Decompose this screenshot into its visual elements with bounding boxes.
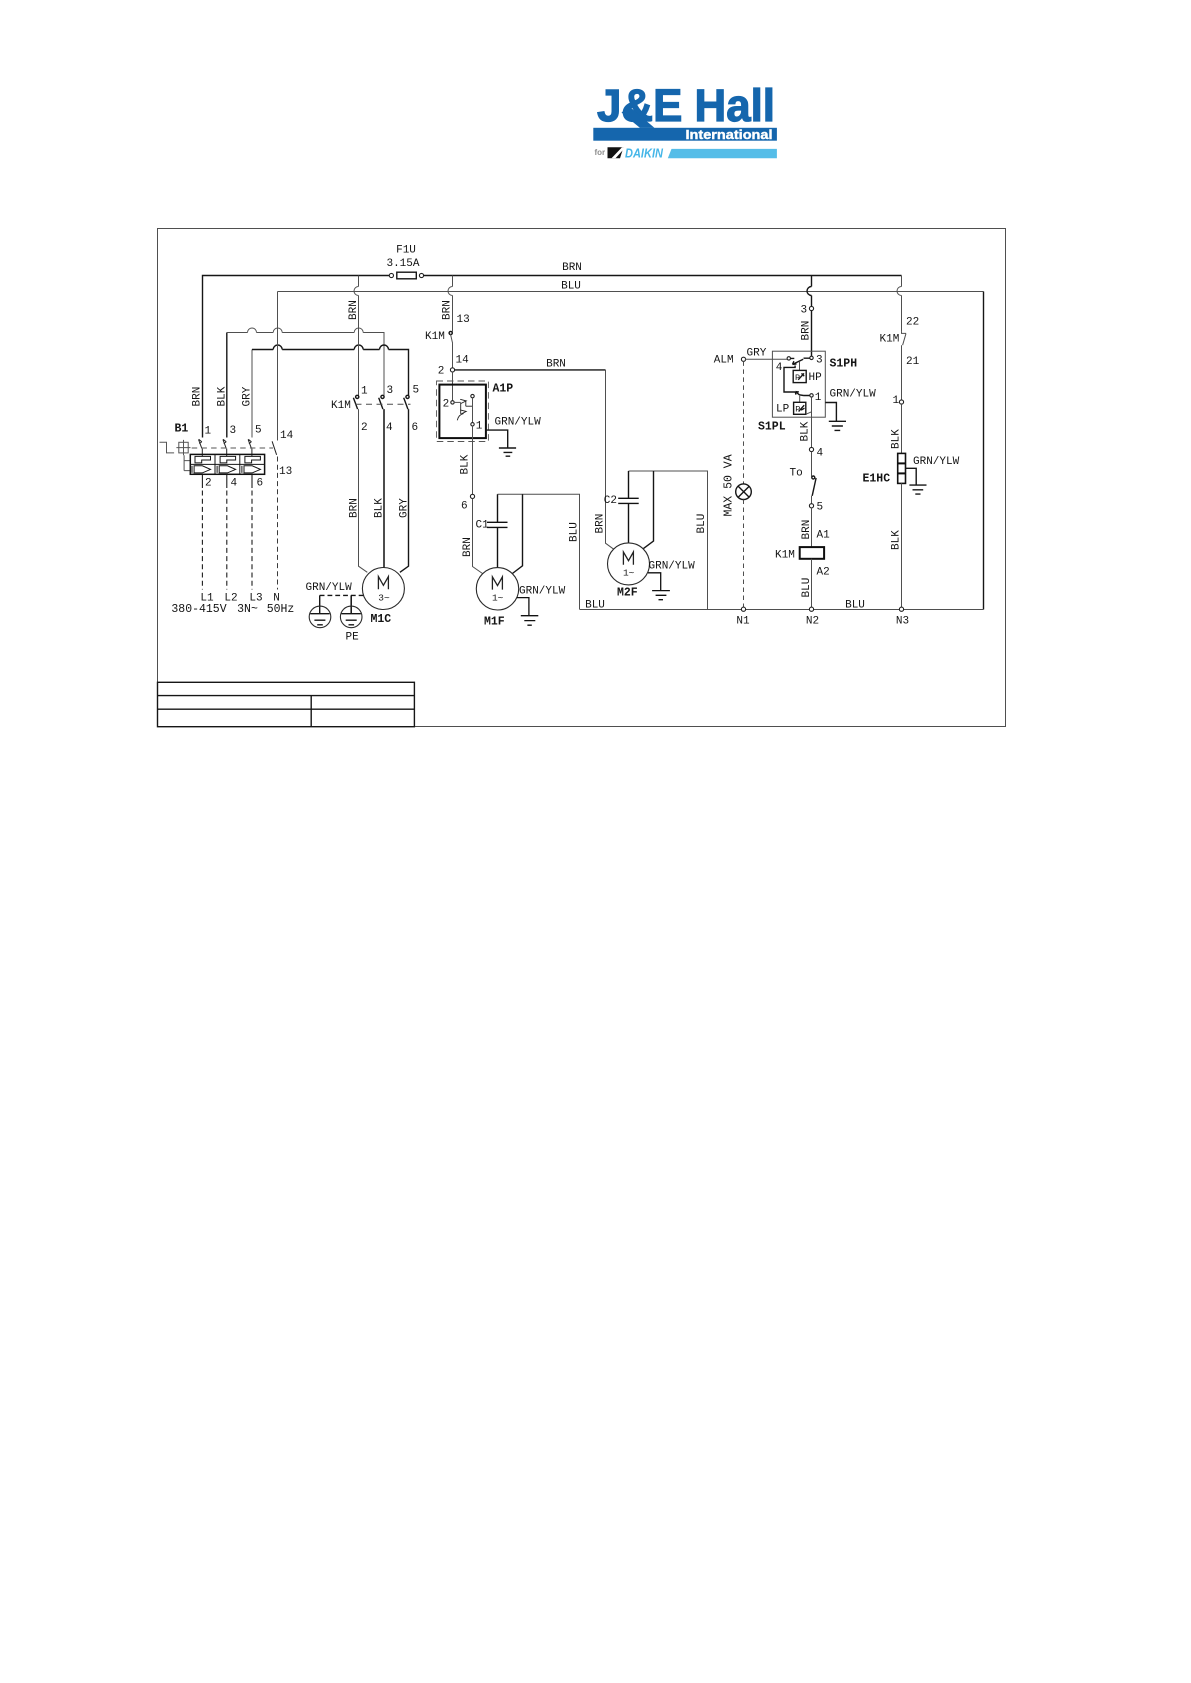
svg-text:HP: HP (809, 372, 823, 384)
svg-text:GRN/YLW: GRN/YLW (519, 585, 566, 597)
svg-text:5: 5 (817, 502, 824, 514)
svg-text:C2: C2 (604, 495, 617, 507)
svg-text:M1C: M1C (371, 613, 392, 626)
svg-text:K1M: K1M (880, 333, 900, 345)
svg-text:BRN: BRN (562, 262, 582, 274)
svg-text:3: 3 (801, 304, 808, 316)
svg-text:3: 3 (816, 354, 823, 366)
svg-text:LP: LP (776, 403, 790, 415)
svg-text:6: 6 (257, 477, 264, 489)
svg-text:1~: 1~ (492, 593, 504, 604)
svg-text:BLU: BLU (845, 599, 865, 611)
svg-text:BRN: BRN (442, 300, 454, 320)
svg-text:PE: PE (346, 632, 360, 644)
svg-text:BLK: BLK (374, 498, 386, 518)
svg-text:A2: A2 (817, 566, 830, 578)
svg-text:N3: N3 (896, 615, 909, 627)
svg-text:3~: 3~ (378, 592, 390, 603)
svg-text:S1PL: S1PL (758, 420, 786, 433)
svg-text:S1PH: S1PH (830, 357, 858, 370)
svg-text:GRN/YLW: GRN/YLW (830, 388, 877, 400)
svg-text:13: 13 (457, 314, 470, 326)
svg-text:GRN/YLW: GRN/YLW (649, 560, 696, 572)
svg-text:F1U: F1U (396, 245, 416, 257)
svg-text:GRY: GRY (747, 348, 767, 360)
svg-text:K1M: K1M (425, 331, 445, 343)
svg-text:J&E Hall: J&E Hall (597, 80, 775, 131)
svg-text:22: 22 (906, 317, 919, 329)
svg-text:MAX 50 VA: MAX 50 VA (723, 454, 736, 516)
svg-text:To: To (790, 467, 803, 479)
svg-text:DAIKIN: DAIKIN (625, 146, 664, 161)
svg-text:BRN: BRN (801, 321, 813, 341)
svg-text:GRN/YLW: GRN/YLW (306, 582, 353, 594)
svg-text:BRN: BRN (595, 514, 607, 534)
svg-text:N2: N2 (806, 615, 819, 627)
svg-text:BLK: BLK (217, 386, 229, 406)
svg-text:14: 14 (456, 354, 470, 366)
svg-text:BRN: BRN (546, 358, 566, 370)
svg-text:4: 4 (776, 362, 783, 374)
svg-text:BLK: BLK (891, 429, 903, 449)
svg-text:1~: 1~ (623, 568, 635, 579)
svg-text:BLK: BLK (891, 530, 903, 550)
svg-text:1: 1 (815, 392, 822, 404)
svg-text:6: 6 (412, 422, 419, 434)
svg-text:50Hz: 50Hz (267, 603, 295, 616)
svg-text:380-415V: 380-415V (171, 603, 226, 616)
svg-text:1: 1 (476, 420, 483, 432)
svg-text:5: 5 (413, 385, 420, 397)
svg-text:5: 5 (255, 425, 262, 437)
svg-text:B1: B1 (175, 422, 189, 435)
svg-text:3: 3 (387, 385, 394, 397)
svg-text:M1F: M1F (484, 616, 505, 629)
svg-text:GRN/YLW: GRN/YLW (913, 456, 960, 468)
svg-text:BLU: BLU (696, 514, 708, 534)
svg-text:1: 1 (361, 385, 368, 397)
svg-text:4: 4 (386, 422, 393, 434)
svg-text:1: 1 (893, 395, 900, 407)
svg-text:3N~: 3N~ (237, 603, 258, 616)
svg-text:3.15A: 3.15A (386, 258, 419, 270)
svg-text:BLK: BLK (800, 421, 812, 441)
svg-text:1: 1 (205, 426, 212, 438)
svg-text:A1P: A1P (493, 382, 514, 395)
svg-text:C1: C1 (476, 519, 490, 531)
svg-text:E1HC: E1HC (863, 472, 891, 485)
svg-text:3: 3 (230, 425, 237, 437)
svg-text:6: 6 (461, 501, 468, 513)
svg-text:2: 2 (205, 477, 212, 489)
svg-text:K1M: K1M (775, 549, 795, 561)
svg-text:BLU: BLU (569, 522, 581, 542)
svg-text:International: International (686, 128, 773, 142)
svg-text:2: 2 (438, 366, 445, 378)
svg-text:BLU: BLU (801, 578, 813, 598)
svg-text:ALM: ALM (714, 355, 734, 367)
svg-text:4: 4 (817, 448, 824, 460)
svg-text:BLU: BLU (585, 599, 605, 611)
svg-text:BRN: BRN (192, 387, 204, 407)
svg-text:GRY: GRY (242, 386, 254, 406)
svg-text:BLU: BLU (561, 281, 581, 293)
svg-text:BRN: BRN (462, 537, 474, 557)
svg-text:BRN: BRN (801, 520, 813, 540)
svg-text:2: 2 (443, 398, 450, 410)
svg-text:BRN: BRN (349, 498, 361, 518)
svg-text:K1M: K1M (331, 400, 351, 412)
svg-text:M2F: M2F (617, 587, 638, 600)
svg-text:for: for (595, 148, 606, 157)
svg-text:2: 2 (361, 422, 368, 434)
svg-text:13: 13 (279, 466, 292, 478)
svg-text:4: 4 (231, 477, 238, 489)
svg-text:N1: N1 (736, 615, 750, 627)
svg-text:BLK: BLK (460, 454, 472, 474)
svg-text:21: 21 (906, 356, 920, 368)
svg-text:GRN/YLW: GRN/YLW (495, 416, 542, 428)
svg-text:GRY: GRY (399, 498, 411, 518)
svg-text:A1: A1 (817, 529, 831, 541)
svg-text:14: 14 (280, 430, 294, 442)
